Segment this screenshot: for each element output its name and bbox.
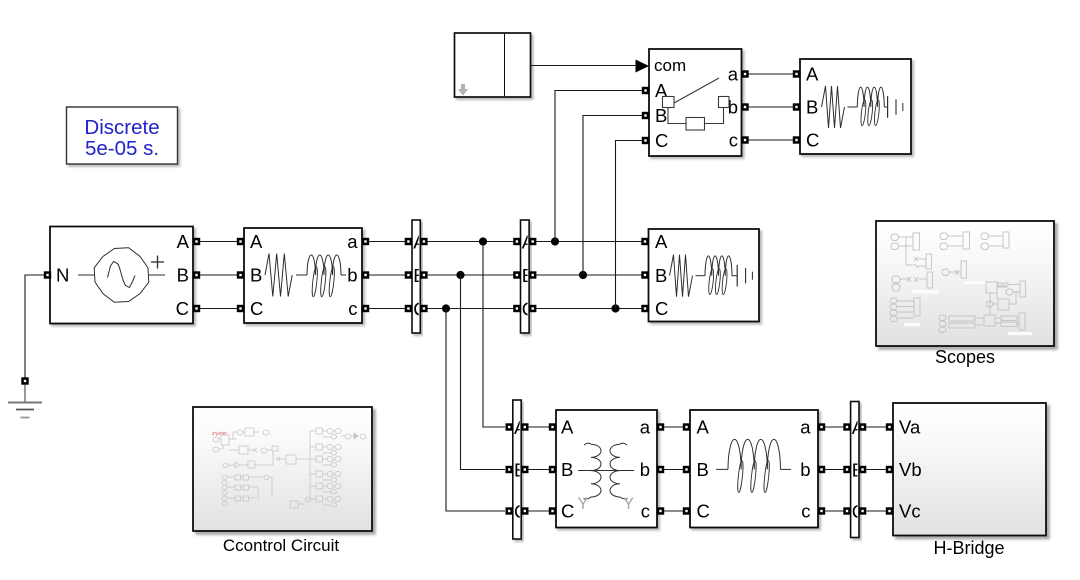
wire c <box>749 139 794 141</box>
ports <box>237 238 244 245</box>
left winding <box>584 443 602 499</box>
wire A <box>200 241 237 243</box>
ports <box>642 87 649 94</box>
svg-text:A: A <box>655 80 668 101</box>
wire A <box>529 426 550 428</box>
svg-text:a: a <box>347 231 358 252</box>
three-phase source block <box>44 227 200 324</box>
svg-text:B: B <box>697 459 709 480</box>
svg-text:B: B <box>250 265 262 286</box>
inductor icon <box>716 468 728 470</box>
wire a <box>369 241 405 243</box>
wire B <box>536 274 642 276</box>
inductor icon <box>307 255 341 275</box>
svg-text:C: C <box>697 501 710 522</box>
svg-text:C: C <box>806 130 819 151</box>
ports <box>641 238 648 245</box>
svg-text:Y: Y <box>577 495 588 513</box>
source circle <box>94 248 149 303</box>
svg-text:A: A <box>655 231 668 252</box>
annotation: Discrete 5e-05 s. <box>67 107 178 164</box>
breaker contact squares <box>663 97 675 108</box>
svg-text:a: a <box>728 64 739 85</box>
svg-text:Scopes: Scopes <box>935 347 995 367</box>
tap C down <box>442 304 450 312</box>
wire c <box>369 308 405 310</box>
wire b <box>369 274 405 276</box>
resistor icon <box>670 255 693 297</box>
svg-text:Va: Va <box>899 417 921 438</box>
source stubs <box>78 274 94 276</box>
wire B <box>428 274 514 276</box>
source port A <box>193 238 200 245</box>
ports <box>549 423 556 430</box>
svg-text:Ccontrol Circuit: Ccontrol Circuit <box>223 536 339 555</box>
bus ports <box>506 423 513 430</box>
svg-text:C: C <box>655 298 668 319</box>
three-phase series RLC branch block <box>237 228 369 323</box>
tap A up to breaker <box>551 237 559 245</box>
wire Vb <box>867 469 887 471</box>
wire C <box>536 308 642 310</box>
svg-text:Vc: Vc <box>899 501 921 522</box>
three-phase inductor block <box>683 410 825 528</box>
svg-text:B: B <box>177 265 189 286</box>
svg-text:A: A <box>806 64 819 85</box>
svg-text:C: C <box>250 298 263 319</box>
svg-text:A: A <box>697 417 710 438</box>
wire b <box>825 469 844 471</box>
source sine wave <box>108 262 136 288</box>
wire a <box>749 73 794 75</box>
svg-text:b: b <box>347 265 357 286</box>
svg-text:c: c <box>801 501 810 522</box>
breaker lever <box>674 78 719 103</box>
svg-text:b: b <box>800 459 810 480</box>
svg-text:A: A <box>561 417 574 438</box>
three-phase series RLC load block <box>641 229 759 322</box>
ground symbol <box>8 385 42 418</box>
svg-text:Discrete: Discrete <box>84 116 159 139</box>
wire B <box>529 469 550 471</box>
wire b <box>749 106 794 108</box>
ports <box>886 423 893 430</box>
wire Va <box>867 426 887 428</box>
capacitor icon <box>887 96 889 118</box>
svg-text:C: C <box>655 130 668 151</box>
source port B <box>193 271 200 278</box>
bus ports <box>843 423 850 430</box>
bus ports <box>513 238 520 245</box>
tap B down <box>456 271 464 279</box>
svg-text:A: A <box>250 231 263 252</box>
wire a <box>664 426 683 428</box>
tap A down <box>479 237 487 245</box>
svg-text:B: B <box>655 265 667 286</box>
wire A <box>536 241 642 243</box>
source port C <box>193 305 200 312</box>
plus sign <box>151 261 164 263</box>
wire C <box>529 510 550 512</box>
breaker coil box <box>686 118 705 131</box>
svg-text:com: com <box>654 56 686 75</box>
bus bar 3 <box>506 400 529 539</box>
capacitor icon <box>736 265 738 287</box>
bus bar 4 <box>843 402 866 538</box>
svg-text:B: B <box>806 97 818 118</box>
resistor icon <box>822 86 845 128</box>
svg-text:a: a <box>640 417 651 438</box>
wire b <box>664 469 683 471</box>
ports <box>683 423 690 430</box>
svg-text:Vb: Vb <box>899 459 922 480</box>
svg-text:A: A <box>177 231 190 252</box>
timer subsystem block <box>455 33 531 97</box>
svg-text:a: a <box>800 417 811 438</box>
ports <box>793 70 800 77</box>
svg-text:b: b <box>640 459 650 480</box>
wire N to ground <box>25 275 44 378</box>
svg-text:Y: Y <box>623 495 634 513</box>
svg-text:B: B <box>655 105 667 126</box>
Ccontrol Circuit subsystem block <box>193 407 372 531</box>
wire B <box>200 274 237 276</box>
svg-text:C: C <box>176 298 189 319</box>
ground port <box>21 377 28 384</box>
dropdown arrow icon <box>458 84 468 96</box>
tap C up to breaker <box>611 304 619 312</box>
H-Bridge subsystem block <box>886 403 1046 536</box>
wire C <box>200 308 237 310</box>
three-phase series RLC load block (top right) <box>793 59 911 154</box>
svg-text:B: B <box>561 459 573 480</box>
wire Vc <box>867 510 887 512</box>
wire C <box>428 308 514 310</box>
svg-text:C: C <box>561 501 574 522</box>
winding line <box>578 470 634 472</box>
svg-text:c: c <box>729 130 738 151</box>
svg-text:c: c <box>641 501 650 522</box>
Scopes subsystem block <box>876 221 1054 346</box>
three-phase breaker block <box>636 49 749 156</box>
svg-text:N: N <box>56 265 69 286</box>
bus ports <box>405 238 412 245</box>
wire a <box>825 426 844 428</box>
wire c <box>664 510 683 512</box>
tap B up to breaker <box>579 271 587 279</box>
com input arrow <box>636 60 650 73</box>
three-phase transformer block <box>549 410 664 528</box>
wire A <box>428 241 514 243</box>
resistor icon <box>265 254 292 297</box>
inductor icon <box>705 256 732 276</box>
inductor icon <box>857 87 884 107</box>
svg-text:H-Bridge: H-Bridge <box>933 538 1004 558</box>
svg-text:c: c <box>348 298 357 319</box>
wire c <box>825 510 844 512</box>
bus bar 2 <box>513 220 536 333</box>
svg-text:5e-05 s.: 5e-05 s. <box>85 137 159 160</box>
source port N <box>44 271 51 278</box>
right winding <box>610 443 628 499</box>
bus bar 1 <box>405 220 428 333</box>
wire to com <box>531 65 637 67</box>
